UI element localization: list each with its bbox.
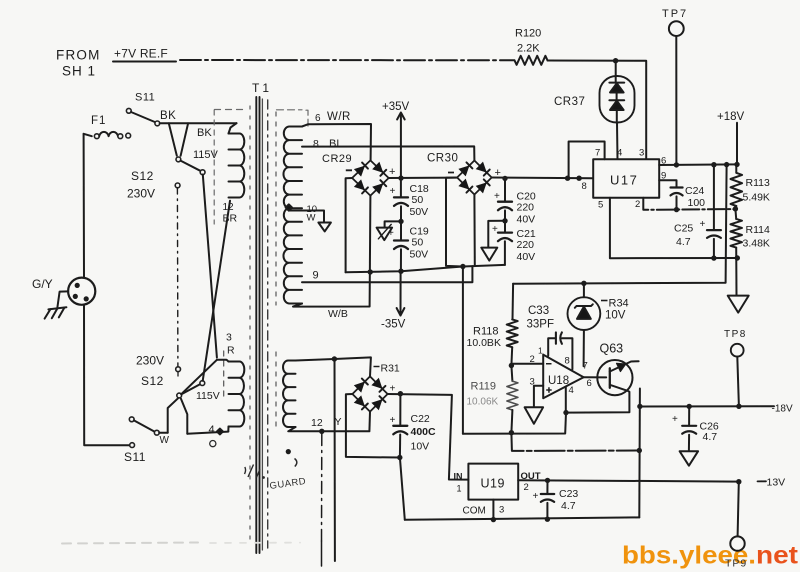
transformer T1 core: [255, 97, 257, 553]
op-amp U19 (regulator): [468, 464, 518, 500]
svg-text:BR: BR: [223, 213, 238, 225]
wire CR31 left loop: [346, 394, 400, 458]
svg-text:12: 12: [223, 202, 235, 213]
svg-text:W/R: W/R: [327, 111, 351, 123]
svg-text:W: W: [307, 213, 316, 224]
T1 primary winding 1: [229, 123, 237, 133]
svg-text:115V: 115V: [193, 149, 219, 161]
svg-text:S12: S12: [131, 169, 154, 183]
svg-text:50: 50: [412, 194, 424, 206]
wire -18V rail vertical: [638, 389, 641, 518]
svg-text:10V: 10V: [605, 310, 626, 322]
svg-text:2: 2: [524, 482, 529, 493]
wire secondary2 top to CR31: [296, 357, 371, 376]
wire plug to S11 lower: [84, 305, 130, 445]
svg-text:S11: S11: [124, 450, 146, 464]
svg-text:7: 7: [583, 361, 588, 372]
rectifier CR31: [352, 376, 387, 411]
node +18V: [736, 123, 738, 165]
svg-text:13V: 13V: [767, 477, 786, 489]
svg-text:COM: COM: [463, 506, 486, 517]
svg-text:4.7: 4.7: [676, 236, 691, 248]
svg-text:R114: R114: [746, 224, 770, 236]
wire R120 to CR37/U17 pin3: [548, 61, 647, 160]
test point TP9: [738, 482, 739, 537]
zener VR34 10V: [583, 283, 585, 297]
svg-text:2.2K: 2.2K: [517, 43, 540, 55]
wire -18V line: [640, 405, 774, 407]
T1 primary winding 2: [217, 360, 229, 362]
wire pin6 W/R to CR29: [302, 124, 371, 160]
svg-text:-18V: -18V: [772, 404, 793, 415]
svg-text:100: 100: [688, 197, 706, 209]
watermark: [622, 542, 799, 570]
svg-text:220: 220: [517, 239, 535, 251]
svg-text:BK: BK: [197, 127, 212, 139]
wire pin9: [302, 266, 472, 282]
svg-text:8: 8: [565, 356, 570, 367]
scan artifact bottom: [62, 543, 198, 544]
wire CR30 left loop: [446, 178, 463, 267]
rectifier CR30: [457, 161, 492, 195]
svg-text:6: 6: [661, 156, 666, 167]
svg-text:R113: R113: [746, 177, 770, 189]
svg-text:400C: 400C: [411, 426, 437, 438]
svg-text:6: 6: [315, 113, 321, 124]
svg-text:Y: Y: [335, 416, 342, 428]
resistor R113 5.49K: [731, 173, 743, 206]
svg-text:U18: U18: [548, 375, 569, 387]
svg-text:+: +: [492, 224, 498, 235]
svg-text:+: +: [390, 415, 396, 426]
svg-text:10.0BK: 10.0BK: [467, 337, 501, 349]
svg-text:R119: R119: [471, 381, 496, 393]
wire U17 pin6 +18V rail: [659, 163, 737, 166]
T1 shield dashed boxes: [213, 110, 215, 224]
svg-text:115V: 115V: [196, 390, 220, 402]
svg-text:50V: 50V: [410, 249, 429, 261]
svg-text:OUT: OUT: [521, 471, 541, 482]
svg-text:230V: 230V: [136, 354, 164, 368]
svg-text:3: 3: [639, 148, 644, 159]
wire U17 pin5 line: [610, 198, 737, 258]
fuse F1: [84, 134, 92, 136]
wire R119 bottom to -18V rail: [511, 433, 639, 451]
svg-text:2: 2: [635, 199, 640, 210]
node +7V REF from SH1: [113, 61, 176, 63]
resistor R120 2.2K: [515, 56, 548, 65]
ground (C20/C21 mid): [488, 221, 505, 248]
svg-text:1: 1: [538, 346, 543, 356]
svg-text:-35V: -35V: [381, 319, 406, 331]
svg-text:8: 8: [313, 138, 319, 150]
wire pin8 BL to CR30: [302, 146, 474, 160]
wire pin4 line: [187, 432, 228, 434]
svg-text:3.48K: 3.48K: [743, 238, 770, 250]
capacitor C22: [399, 394, 401, 426]
svg-text:3: 3: [499, 505, 504, 516]
wire secondary2 bottom (pin12 Y) to CR31: [288, 412, 370, 432]
svg-text:2: 2: [530, 354, 535, 365]
svg-text:S12: S12: [141, 374, 164, 388]
wire C22 bottom to COM bus: [400, 458, 405, 520]
svg-text:+: +: [389, 166, 395, 178]
node -35V: [400, 272, 402, 314]
svg-text:R31: R31: [381, 363, 400, 375]
ground (C18/C19 mid): [385, 221, 401, 227]
op-amp U17 (regulator): [593, 159, 659, 198]
ground (R114): [728, 296, 749, 313]
svg-text:33PF: 33PF: [527, 319, 555, 331]
capacitor C23 4.7: [546, 480, 548, 494]
wire U17 pin7 loop: [569, 142, 605, 179]
svg-text:G/Y: G/Y: [32, 277, 53, 291]
svg-text:10.06K: 10.06K: [467, 397, 499, 408]
svg-text:CR37: CR37: [554, 96, 585, 108]
resistor R114 3.48K: [730, 219, 742, 248]
svg-text:3: 3: [226, 332, 232, 344]
bridge polarity marks: [346, 170, 454, 172]
svg-text:+: +: [495, 167, 501, 179]
svg-text:C22: C22: [411, 413, 430, 425]
svg-text:R: R: [227, 345, 235, 357]
wire U18 output to Q63 base: [584, 376, 607, 378]
svg-text:9: 9: [661, 171, 666, 182]
wire U17 pin2 line: [643, 198, 735, 210]
capacitor C33 33PF feedback: [548, 338, 555, 356]
svg-text:F1: F1: [91, 115, 106, 127]
capacitor C20: [504, 179, 506, 202]
svg-text:4.7: 4.7: [561, 500, 576, 512]
svg-text:C25: C25: [674, 223, 693, 235]
switch S12 (upper 115V/230V select): [169, 123, 177, 155]
capacitor C24: [671, 186, 683, 188]
svg-text:W: W: [160, 435, 170, 446]
wire U19 COM pin3: [492, 500, 494, 520]
svg-text:IN: IN: [454, 472, 463, 482]
wire CR29 minus bus: [346, 265, 505, 272]
op-amp U18: [543, 355, 583, 399]
svg-text:TP9: TP9: [725, 558, 747, 570]
wire U17 pin9 to C24: [659, 180, 676, 187]
connector G/Y (mains plug): [83, 134, 85, 278]
svg-text:R118: R118: [473, 326, 498, 338]
svg-text:5: 5: [598, 200, 603, 211]
svg-text:TP8: TP8: [724, 329, 747, 340]
svg-text:40V: 40V: [517, 214, 536, 226]
test point TP7: [669, 21, 684, 36]
switch S11 (lower): [130, 443, 135, 448]
wire Q63 emitter: [566, 385, 629, 413]
svg-text:10V: 10V: [411, 441, 430, 453]
svg-text:BK: BK: [160, 110, 176, 122]
svg-text:8: 8: [582, 181, 587, 192]
wire W/B to CR29 bottom: [293, 196, 370, 307]
ground (plug earth): [57, 291, 68, 307]
svg-text:4: 4: [209, 424, 215, 436]
wire CR29 plus rail: [389, 177, 457, 179]
diode CR37: [615, 61, 617, 83]
svg-text:U19: U19: [481, 477, 505, 491]
svg-text:+: +: [390, 384, 396, 395]
svg-text:SH 1: SH 1: [62, 64, 96, 79]
wire CR30 plus to U17 pin8: [492, 177, 593, 180]
svg-text:1: 1: [457, 484, 462, 494]
svg-text:GUARD: GUARD: [269, 476, 307, 492]
wire COM bus: [405, 517, 640, 519]
ground (C26): [680, 451, 699, 466]
wire CR31 plus to U19 IN: [388, 394, 469, 480]
svg-text:C24: C24: [685, 185, 704, 197]
test point TP8: [731, 344, 744, 357]
svg-text:+: +: [388, 228, 394, 239]
svg-text:+7V RE.F: +7V RE.F: [114, 47, 168, 61]
svg-text:C23: C23: [559, 488, 578, 500]
svg-text:C33: C33: [528, 305, 549, 317]
svg-text:4: 4: [617, 148, 622, 159]
svg-text:CR30: CR30: [427, 153, 458, 165]
svg-text:6: 6: [587, 378, 592, 389]
capacitor C25: [713, 165, 715, 230]
wire pin3 corner to lower S12 pivot: [181, 360, 217, 394]
wire 230V dash-dot link: [176, 188, 179, 367]
guard scribbles: [286, 449, 291, 454]
rectifier CR29: [352, 160, 389, 195]
svg-text:220: 220: [517, 202, 535, 214]
wire U18 pin4: [565, 387, 567, 413]
svg-text:+35V: +35V: [382, 101, 410, 113]
wire emitter bus to 433 line: [463, 413, 566, 434]
wire U18 pin2 input: [511, 363, 543, 365]
svg-text:W/B: W/B: [328, 308, 348, 320]
node pin10 W tap: [289, 211, 324, 223]
svg-text:9: 9: [313, 270, 319, 282]
ground (pin10): [318, 223, 331, 232]
svg-text:R34: R34: [609, 298, 629, 310]
svg-text:S11: S11: [135, 92, 155, 104]
svg-text:+: +: [390, 186, 396, 197]
svg-text:50: 50: [412, 237, 424, 249]
wire U18 pin3 input + ground: [534, 386, 543, 407]
svg-text:T1: T1: [252, 81, 272, 95]
test point TP9: [730, 536, 744, 550]
svg-text:5.49K: 5.49K: [743, 192, 770, 204]
wire U19 OUT line -13V: [518, 480, 739, 481]
switch S11 (upper): [126, 108, 131, 113]
resistor R118 10.0BK: [512, 284, 515, 320]
wire crossover pin12 to lower 115V: [203, 201, 230, 381]
svg-text:4.7: 4.7: [703, 431, 718, 443]
svg-text:Q63: Q63: [600, 342, 624, 356]
wire upper 115V to pin3: [203, 175, 217, 358]
wire CR30 bottom vertex: [473, 195, 475, 266]
wire CR29 left loop: [346, 178, 353, 272]
svg-text:12: 12: [311, 417, 323, 429]
T1 secondary winding 2: [283, 361, 296, 428]
svg-text:+: +: [533, 491, 539, 502]
svg-text:TP7: TP7: [662, 8, 688, 20]
capacitor C21: [498, 231, 512, 233]
wire +18V rail to R118/R34: [513, 165, 727, 284]
svg-text:3: 3: [530, 377, 535, 388]
wire guard drop lines: [334, 359, 336, 561]
svg-text:FROM: FROM: [56, 48, 101, 63]
capacitor C26 4.7: [688, 406, 690, 425]
transistor Q63: [597, 360, 632, 395]
svg-text:4: 4: [569, 385, 574, 396]
wire S11 to T1 primary: [160, 122, 237, 124]
svg-text:+: +: [700, 219, 706, 230]
svg-text:BL: BL: [329, 138, 342, 150]
switch S12 (lower 115V/230V select): [168, 398, 178, 432]
svg-text:7: 7: [595, 148, 600, 159]
svg-text:230V: 230V: [127, 187, 155, 201]
wire rail x463 down: [462, 267, 464, 434]
resistor R119 10.06K: [511, 366, 512, 382]
capacitor C18: [394, 196, 408, 198]
svg-text:+: +: [494, 191, 500, 202]
svg-text:U17: U17: [610, 173, 638, 188]
T1 secondary winding 1: [283, 127, 302, 304]
node +35V: [400, 114, 402, 198]
svg-text:+18V: +18V: [717, 111, 745, 123]
svg-text:R120: R120: [515, 28, 541, 40]
capacitor C19: [394, 239, 408, 241]
svg-text:50V: 50V: [410, 206, 429, 218]
svg-text:+: +: [672, 414, 678, 425]
svg-text:net: net: [756, 542, 799, 570]
svg-text:CR29: CR29: [322, 153, 352, 165]
svg-text:40V: 40V: [517, 251, 536, 263]
